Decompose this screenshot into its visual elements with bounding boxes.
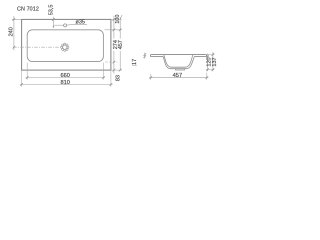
- dim 53,5: [53, 17, 63, 28]
- side view right extension lines: [206, 55, 215, 70]
- dim 457 line (side view): [149, 77, 208, 79]
- bottom extension lines (top view): [22, 63, 111, 87]
- drain rosette: [61, 43, 69, 51]
- svg-text:17: 17: [132, 59, 138, 65]
- side view: drain flange: [176, 69, 185, 70]
- svg-text:ø35: ø35: [75, 20, 84, 26]
- side view: left edge curl: [150, 55, 151, 57]
- svg-text:660: 660: [60, 73, 70, 79]
- svg-text:240: 240: [8, 27, 14, 36]
- side view: right edge curl: [206, 55, 207, 57]
- dim 660 line: [26, 77, 105, 79]
- chain dimension line 100/274/83: [113, 16, 115, 74]
- svg-text:83: 83: [116, 75, 122, 81]
- side view: counter top line: [151, 54, 205, 56]
- svg-text:810: 810: [60, 80, 70, 86]
- horizontal centerline through drain: [13, 46, 61, 48]
- right extension lines (top view): [105, 19, 122, 70]
- side view: bowl outer shell: [163, 57, 194, 69]
- dim 457 (side view) extension lines: [151, 73, 207, 80]
- dim ø35 leader: [67, 23, 87, 26]
- bowl rounded rectangle (top view): [27, 30, 103, 62]
- dim 240 left: [12, 16, 22, 50]
- side view: rim underside right: [194, 56, 205, 58]
- dim 17 text underline: [132, 65, 136, 67]
- side view: bowl inner surface: [164, 55, 193, 67]
- overall 457 dimension (top view right): [120, 15, 122, 71]
- svg-text:53,5: 53,5: [48, 5, 54, 16]
- dim 53,5 arrowhead at hole level: [53, 25, 55, 27]
- outer rim rectangle (top view): [22, 19, 111, 70]
- svg-text:137: 137: [212, 57, 218, 66]
- svg-text:457: 457: [118, 40, 124, 49]
- dim 120 (side view): [207, 54, 209, 72]
- dim 810 line: [20, 84, 113, 86]
- side view: rim underside left: [151, 56, 163, 58]
- svg-text:CN 7012: CN 7012: [17, 6, 39, 12]
- svg-text:457: 457: [173, 73, 183, 79]
- dim 17 tick assembly: [144, 53, 146, 59]
- faucet hole: [64, 24, 67, 27]
- dim 137 (side view): [212, 52, 214, 71]
